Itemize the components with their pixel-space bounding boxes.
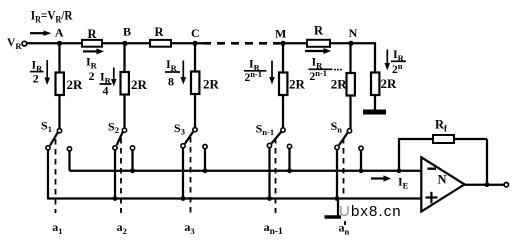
column A: wire node to 2R	[58, 43, 60, 72]
wire: 2R(A) to switch S1	[58, 95, 60, 128]
wire: 2R(M) to switch Sn-1	[282, 95, 284, 128]
node M	[280, 41, 285, 46]
wire: op-amp output	[465, 184, 505, 186]
switch Sn-1	[256, 122, 292, 200]
resistor 2R (terminator)	[371, 73, 379, 96]
svg-text:B: B	[123, 25, 131, 39]
junction S2 lower	[113, 196, 118, 201]
svg-text:Ubx8.cn: Ubx8.cn	[339, 203, 402, 220]
wire: feedback down to output	[486, 139, 488, 185]
junction S3 lower	[181, 196, 186, 201]
svg-text:4: 4	[103, 84, 109, 98]
input terminal	[22, 41, 27, 46]
wire: 2R(N) to switch Sn	[349, 96, 351, 129]
column B: wire node to 2R	[123, 43, 125, 72]
wire: feedback top right	[454, 138, 487, 140]
resistor 2R (N)	[347, 73, 355, 96]
ground (terminator)	[363, 110, 386, 115]
svg-text:2: 2	[33, 71, 39, 85]
resistor R3 (M-N)	[307, 40, 330, 47]
arrow IR into node A	[30, 31, 52, 36]
node B	[122, 41, 127, 46]
svg-text:2R: 2R	[331, 77, 348, 92]
junction output node	[485, 182, 490, 187]
arrow IE	[371, 175, 391, 181]
dashed line a2	[120, 138, 122, 213]
output terminal	[504, 183, 508, 187]
svg-text:N: N	[349, 26, 358, 40]
junction Sn lower / ground tap	[335, 196, 340, 201]
svg-text:2R: 2R	[381, 76, 398, 91]
svg-text:2R: 2R	[289, 77, 306, 92]
arrow IR/2^(n-1) down	[269, 61, 275, 85]
label IR=VR/R formula	[31, 8, 73, 25]
arrow IR/2 down	[44, 60, 50, 85]
dashed line an	[343, 138, 345, 196]
wire: 2R(C) to switch S3	[194, 94, 196, 127]
node A	[57, 41, 62, 46]
switch S1	[41, 119, 72, 200]
junction S2 upper	[130, 168, 135, 173]
wire: rail M to corner	[279, 42, 376, 44]
switch Sn	[331, 119, 364, 200]
dashed line a1	[55, 139, 57, 213]
svg-text:N: N	[438, 172, 447, 186]
resistor R1 (A-B)	[82, 40, 102, 47]
svg-text:R: R	[88, 27, 98, 41]
svg-text:2: 2	[89, 69, 95, 83]
wire: dashed rail C to M	[203, 42, 280, 45]
arrow IR/8 down	[181, 61, 187, 85]
column M: wire node to 2R	[282, 43, 284, 72]
junction S3 upper	[203, 168, 208, 173]
resistor 2R (B)	[121, 72, 129, 95]
arrow current through R1	[83, 48, 104, 54]
column C: wire node to 2R	[194, 43, 196, 72]
resistor Rf	[433, 135, 454, 143]
svg-text:...: ...	[334, 60, 343, 74]
node N	[348, 41, 353, 46]
resistor 2R (A)	[56, 73, 64, 96]
svg-text:2R: 2R	[203, 77, 220, 92]
junction Sn-1 upper	[287, 168, 292, 173]
svg-text:A: A	[55, 26, 64, 40]
junction Sn-1 lower	[267, 196, 272, 201]
resistor 2R (M)	[279, 73, 287, 96]
op-amp N	[421, 157, 464, 211]
dashed line an-1	[275, 138, 277, 213]
junction Sn upper	[359, 168, 364, 173]
svg-text:M: M	[275, 27, 286, 41]
arrow current through R3	[305, 48, 331, 54]
column N: wire node to 2R	[349, 43, 351, 73]
wire: 2R to ground	[374, 95, 376, 111]
svg-text:R: R	[155, 25, 165, 39]
resistor 2R (C)	[191, 72, 199, 95]
svg-text:2R: 2R	[131, 77, 148, 92]
wire: upper bus to op-amp inverting input	[70, 170, 422, 172]
resistor R2 (B-C)	[150, 40, 171, 47]
svg-text:C: C	[191, 26, 200, 40]
node C	[192, 41, 197, 46]
switch S3	[174, 121, 207, 200]
switch S2	[108, 120, 135, 200]
wire: main rail V_R to C	[27, 42, 203, 44]
dashed line a3	[190, 137, 192, 213]
ground (lower bus)	[337, 199, 339, 218]
svg-text:8: 8	[168, 74, 174, 88]
arrow IR/2^n down	[385, 50, 391, 71]
wire: feedback up	[398, 139, 400, 171]
wire: 2R(B) to switch S2	[123, 95, 125, 128]
svg-text:2R: 2R	[67, 77, 84, 92]
wire: feedback top left	[398, 138, 433, 140]
wire: lower bus to op-amp non-inverting input	[48, 197, 422, 199]
terminating branch: corner down	[374, 42, 376, 72]
arrow IR/4 down	[111, 68, 117, 87]
svg-text:R: R	[314, 24, 324, 38]
junction feedback node	[397, 168, 402, 173]
